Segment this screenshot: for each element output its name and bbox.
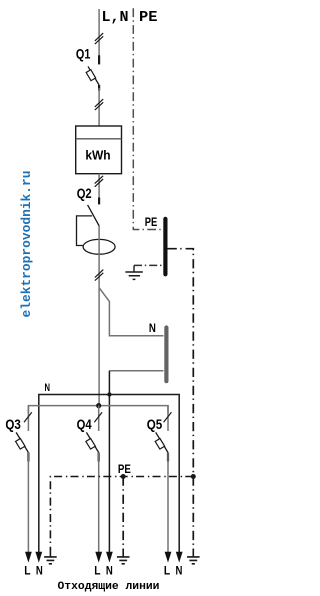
svg-text:elektroprovodnik.ru: elektroprovodnik.ru	[19, 171, 34, 318]
wire: N branch from split to N busbar	[99, 288, 163, 336]
ground: outgoing line 2	[117, 557, 130, 564]
arrow: outgoing L line 1	[25, 552, 32, 563]
wire: outgoing L line 3	[167, 453, 169, 556]
ground: outgoing line 1	[44, 557, 57, 564]
node: L bus junction dot	[96, 403, 101, 408]
two-conductor slash marks below RCD	[95, 270, 103, 281]
svg-text:Q1: Q1	[76, 46, 91, 62]
N distribution bus	[39, 395, 179, 557]
wire: L riser from split to L bus	[98, 288, 100, 406]
PE busbar	[163, 219, 167, 274]
svg-text:PE: PE	[139, 9, 158, 26]
node: PE junction dot right	[191, 474, 196, 479]
two-conductor slash marks between meter and Q2	[95, 176, 103, 187]
circuit breaker Q1 lower contact tick	[98, 85, 100, 91]
N busbar	[164, 328, 168, 382]
wire: meter to Q2	[98, 174, 100, 205]
arrow: outgoing N line 2	[106, 552, 113, 563]
wire: incoming L,N riser top	[98, 9, 100, 56]
svg-text:Q5: Q5	[147, 416, 163, 432]
svg-text:Q3: Q3	[5, 416, 21, 432]
wire: PE dash-dot riser from top down to PE busbar	[133, 8, 163, 229]
svg-text:N: N	[149, 321, 156, 335]
ground: outgoing line 3	[187, 557, 200, 564]
ground electrode near PE busbar	[133, 265, 135, 272]
circuit breaker Q1 upper contact tick	[98, 55, 100, 64]
L distribution bus	[28, 406, 168, 413]
arrow: outgoing L line 2	[95, 552, 102, 563]
wire: PE drop right	[192, 477, 194, 550]
RCD Q2 trip linkage rectangle	[77, 216, 93, 246]
circuit breaker Q5	[155, 406, 171, 462]
kWh meter box	[76, 126, 122, 174]
circuit breaker Q1 rectangle	[86, 70, 95, 81]
wire: Q2 through toroid down to split node	[98, 226, 100, 288]
two-conductor slash marks on incoming riser	[95, 33, 103, 44]
circuit breaker Q1 blade	[88, 66, 99, 85]
svg-text:L: L	[24, 563, 30, 577]
arrow: outgoing N line 1	[35, 552, 42, 563]
RCD Q2 blade	[88, 205, 100, 226]
svg-text:Q2: Q2	[77, 185, 92, 201]
svg-text:N: N	[176, 563, 183, 577]
circuit breaker Q3	[16, 406, 32, 462]
wire: outgoing L line 1	[27, 453, 29, 556]
svg-text:N: N	[36, 563, 43, 577]
wire: PE distribution dash-dot bus	[50, 477, 193, 550]
wire: PE drop middle	[122, 477, 124, 550]
svg-text:N: N	[45, 382, 51, 394]
wire: outgoing L line 2	[98, 453, 100, 556]
arrow: outgoing N line 3	[176, 552, 183, 563]
wire: dash-dot from earth electrode to PE busbar	[134, 264, 163, 266]
wire: N feed down to N bus	[108, 371, 110, 395]
wire: N busbar output	[109, 370, 163, 372]
RCD Q2 differential transformer ellipse	[83, 239, 115, 254]
svg-text:L: L	[94, 563, 100, 577]
circuit breaker Q4	[86, 406, 102, 462]
arrow: outgoing L line 3	[165, 552, 172, 563]
node: N bus junction dot	[107, 392, 111, 396]
svg-text:Q4: Q4	[77, 416, 92, 432]
wire: dash-dot from PE busbar to outgoing PE distribution	[168, 249, 194, 477]
wire: Q1 to kWh meter	[98, 88, 100, 126]
svg-text:Отходящие линии: Отходящие линии	[58, 581, 160, 593]
node: PE junction dot middle	[121, 474, 126, 479]
svg-text:PE: PE	[118, 462, 131, 476]
two-conductor slash marks between Q1 and meter	[95, 99, 103, 110]
svg-text:L: L	[164, 563, 170, 577]
RCD Q2 upper contact tick	[98, 198, 100, 205]
svg-text:L,N: L,N	[102, 9, 129, 26]
kWh meter terminal divider line	[76, 138, 122, 140]
svg-text:kWh: kWh	[85, 148, 110, 163]
svg-text:N: N	[106, 563, 113, 577]
svg-text:PE: PE	[145, 215, 158, 229]
wire: N outgoing middle	[108, 395, 110, 557]
